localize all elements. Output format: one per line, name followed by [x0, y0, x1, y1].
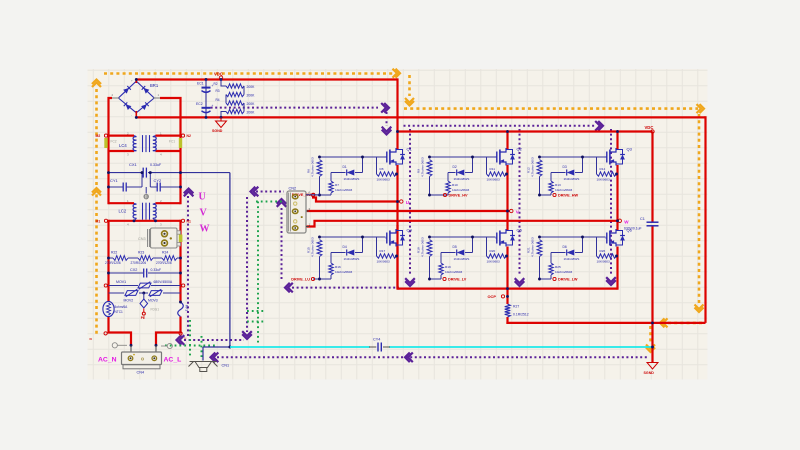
wire drive Q4 [313, 278, 331, 280]
purple arrow left CN2-top [251, 187, 256, 197]
svg-text:10ohm/0603: 10ohm/0603 [555, 270, 572, 274]
svg-text:V: V [200, 208, 208, 219]
svg-text:MOV3: MOV3 [148, 299, 158, 303]
svg-text:AC_L: AC_L [164, 357, 182, 364]
green route top horizontal near CN2 [256, 201, 284, 203]
orange route vertical at bridge output [408, 75, 411, 96]
diode D5 [441, 252, 456, 254]
svg-text:0.33uF: 0.33uF [151, 268, 162, 272]
orange route top horizontal [104, 72, 394, 75]
resistor R22 [113, 256, 128, 261]
wire divider joint right1 [243, 86, 245, 95]
junction cyan right node [651, 346, 654, 349]
junction CN4 pin2 [155, 344, 158, 347]
resistor R12 [537, 160, 542, 177]
orange route left vertical [95, 89, 98, 336]
svg-text:PE: PE [141, 316, 145, 320]
purple arrow down phase-W [606, 280, 616, 285]
svg-text:R13: R13 [555, 183, 561, 187]
capacitor CX2 [143, 269, 145, 278]
orange arrow up left mid [92, 188, 101, 193]
wire R15 to drive [319, 257, 321, 280]
capacitor CY4 [369, 338, 390, 352]
diode D6 [551, 252, 566, 254]
green route bottom horizontal y345 [165, 345, 216, 347]
purple route low-drive horizontal [292, 287, 399, 289]
svg-text:D1: D1 [343, 165, 347, 169]
junction CY left [107, 186, 110, 189]
svg-text:10K/0603: 10K/0603 [597, 260, 611, 264]
svg-text:CX1: CX1 [129, 162, 138, 167]
svg-text:EC2: EC2 [196, 102, 203, 106]
inductor LC2 [119, 199, 163, 227]
svg-text:DRIVE_LV: DRIVE_LV [448, 278, 467, 282]
purple route from divider horizontal [211, 107, 378, 109]
green route short horizontal y321 [247, 321, 266, 323]
purple route mid vertical x247 [246, 197, 248, 332]
wire AC left rail upper [109, 98, 113, 137]
resistor R17 [376, 237, 378, 256]
svg-text:R25: R25 [555, 265, 561, 269]
purple arrow left CN4 route [177, 335, 182, 345]
svg-text:R20: R20 [490, 249, 496, 253]
svg-text:FDG1: FDG1 [151, 308, 160, 312]
svg-text:1N4148WS: 1N4148WS [564, 177, 580, 181]
svg-text:NTC1: NTC1 [115, 310, 124, 314]
svg-text:D6: D6 [563, 245, 567, 249]
svg-text:LC2: LC2 [119, 209, 127, 214]
transistor Q3 [606, 147, 633, 166]
svg-text:10K/0603: 10K/0603 [377, 178, 391, 182]
wire EC chain vertical [205, 80, 207, 118]
svg-text:D5: D5 [453, 245, 457, 249]
svg-text:DRIVE_HW: DRIVE_HW [558, 194, 578, 198]
wire CY row [109, 186, 123, 188]
svg-text:SGND: SGND [212, 129, 223, 133]
svg-text:+: + [131, 79, 133, 83]
svg-text:N2: N2 [187, 134, 191, 138]
net tie MOV1 left [104, 284, 107, 287]
svg-text:R19: R19 [445, 265, 451, 269]
svg-text:R26: R26 [600, 249, 606, 253]
svg-text:200K: 200K [247, 111, 256, 115]
wire CN1 branch [203, 347, 230, 361]
svg-text:10ohm/0603: 10ohm/0603 [452, 188, 469, 192]
transistor Q1 [386, 147, 413, 166]
orange arrow left bottom-right [660, 318, 665, 327]
wire divider joint right2 [243, 103, 245, 112]
svg-text:Q5: Q5 [517, 228, 523, 233]
orange route upper-right horizontal [404, 107, 698, 110]
wire LC2 pin2 [156, 202, 181, 204]
svg-text:L: L [185, 336, 187, 340]
svg-text:4.7kohm 0603: 4.7kohm 0603 [531, 157, 535, 177]
net label W phase [618, 219, 621, 222]
wire CN2 to W phase [306, 221, 618, 227]
resistor R14 [596, 157, 598, 174]
purple route VDC-rail horizontal [404, 125, 596, 127]
svg-text:10ohm/0603: 10ohm/0603 [555, 188, 572, 192]
net label U phase [400, 200, 403, 203]
junction Q2 gate cell [428, 156, 431, 159]
bus phase U low segment [396, 247, 398, 290]
svg-text:Q1: Q1 [407, 147, 413, 152]
transistor Q6 [606, 228, 633, 247]
svg-text:R3: R3 [216, 89, 220, 93]
svg-text:R7: R7 [335, 183, 339, 187]
svg-text:U: U [199, 192, 206, 203]
wire drive Q3 [540, 194, 552, 196]
wire drive Q1 [313, 194, 331, 196]
diode D2 [448, 172, 456, 174]
svg-text:0.33uF: 0.33uF [150, 163, 162, 167]
purple route phase-W vertical [610, 129, 612, 275]
svg-text:270R/1206: 270R/1206 [156, 261, 172, 265]
wire LC4 pin3 [109, 150, 135, 152]
diode D3 [551, 172, 566, 174]
svg-text:M1: M1 [96, 219, 101, 223]
svg-text:M2: M2 [96, 134, 101, 138]
junction emitter rail V [506, 287, 509, 290]
svg-text:CY1: CY1 [110, 178, 119, 183]
purple arrow down phase-U [405, 281, 415, 286]
schematic sheet [88, 69, 708, 380]
earth clamp CN1 [189, 362, 218, 372]
resistor R4 [226, 101, 244, 105]
orange arrow down right [695, 308, 704, 313]
orange route right vertical [698, 114, 701, 304]
junction VDC rail at U [396, 130, 399, 133]
wire R22-R24 row [109, 257, 114, 259]
diode D4 [331, 252, 346, 254]
varistor MOV3 [149, 291, 162, 296]
purple arrow right at divider route [384, 103, 389, 113]
bus phase W vertical [616, 132, 618, 150]
junction VDC rail at V [506, 130, 509, 133]
svg-text:4.7kohm 0603: 4.7kohm 0603 [311, 157, 315, 177]
svg-text:200K: 200K [247, 94, 256, 98]
purple arrow down below divider route [382, 130, 392, 135]
wire right rail RF1 to CN4 [156, 317, 181, 346]
svg-text:Q4: Q4 [407, 228, 413, 233]
svg-text:R2: R2 [214, 82, 218, 86]
ferrite bead FC1 [179, 138, 182, 148]
power symbol SGND bottom [644, 363, 659, 376]
net tie L corner [104, 332, 107, 335]
resistor R15 [317, 240, 322, 257]
resistor R18 [427, 240, 432, 257]
svg-text:R27: R27 [513, 305, 519, 309]
wire LC4 pin4 [156, 150, 181, 152]
resistor R20 [486, 237, 488, 256]
svg-text:10K/0603: 10K/0603 [487, 178, 501, 182]
wire R9 to drive [429, 177, 431, 196]
svg-text:4.7kohm 0603: 4.7kohm 0603 [421, 237, 425, 257]
varistor MOV2 [125, 291, 138, 296]
junction CY right [179, 186, 182, 189]
purple route CN2-top horizontal [256, 191, 284, 193]
junction CY-CX taps [141, 171, 144, 174]
svg-text:CN2: CN2 [289, 187, 297, 191]
junction RF1 top [179, 301, 182, 304]
wire drive Q5 [430, 278, 442, 280]
svg-text:1N4148WS: 1N4148WS [344, 257, 360, 261]
junction EC1 bottom [205, 116, 208, 119]
connector CN4 [122, 345, 162, 369]
wire VDC bridge top rail [398, 130, 653, 132]
svg-text:D3: D3 [563, 165, 567, 169]
svg-text:SGND: SGND [644, 371, 655, 375]
wire gate row Q4 [320, 236, 386, 238]
wire drive Q6 [540, 278, 552, 280]
resistor R19 [439, 263, 443, 275]
resistor R24 [162, 256, 177, 261]
wire CX1 row to mid vertical [109, 172, 142, 174]
svg-text:1N4148WS: 1N4148WS [564, 257, 580, 261]
svg-text:1N4148WS: 1N4148WS [454, 257, 470, 261]
svg-text:D2: D2 [453, 165, 457, 169]
svg-text:5ohm/6A: 5ohm/6A [115, 305, 129, 309]
connector CN2 pins [293, 191, 312, 231]
purple arrow left low-drive route [285, 283, 290, 293]
junction R row [107, 257, 110, 260]
net tie N2 [181, 134, 184, 137]
svg-text:10ohm/0603: 10ohm/0603 [335, 270, 352, 274]
sheet grid [88, 69, 708, 380]
purple arrow down phase-V [515, 281, 525, 286]
wire VDC cap branch upper [651, 132, 653, 223]
svg-text:BR1: BR1 [150, 83, 159, 88]
svg-text:+: + [212, 104, 214, 108]
svg-text:R8: R8 [380, 167, 384, 171]
junction VDC rail at W [616, 130, 619, 133]
resistor R10 [446, 181, 450, 193]
svg-text:RF1: RF1 [185, 305, 189, 311]
svg-text:1N4148WS: 1N4148WS [344, 177, 360, 181]
wire gate row Q2 [430, 156, 496, 158]
svg-text:R4: R4 [216, 98, 220, 102]
junction bridge top [135, 78, 138, 81]
green route vertical x201 [201, 336, 203, 357]
svg-text:R24: R24 [162, 251, 168, 255]
wire right rail LC2 to RF1 [179, 220, 181, 302]
svg-text:R22: R22 [111, 251, 117, 255]
wire VDC top rail [136, 78, 397, 80]
purple route mid vertical x188 [187, 196, 189, 337]
svg-text:W: W [200, 224, 210, 235]
junction Q4 gate cell [318, 236, 321, 239]
resistor R6 [317, 160, 322, 177]
wire left rail LC2 to NTC [107, 220, 109, 302]
wire gate row Q6 [540, 236, 606, 238]
svg-text:DRIVE_LU: DRIVE_LU [291, 278, 310, 282]
svg-text:D4: D4 [343, 245, 347, 249]
capacitor CY1 [122, 183, 124, 192]
net label V phase [510, 209, 513, 212]
ferrite bead FC3 [179, 235, 183, 243]
svg-text:10K/0603: 10K/0603 [377, 260, 391, 264]
resistor R9 [427, 160, 432, 177]
junction Q3 gate cell [538, 156, 541, 159]
svg-text:200K: 200K [247, 85, 256, 89]
fuse RF1 [178, 302, 189, 317]
resistor R21 [537, 240, 542, 257]
wire R21 to drive [539, 257, 541, 280]
wire CX2 row [109, 272, 144, 274]
purple arrow down mid x247 [242, 334, 252, 339]
wire right rail LC4 to LC2 [179, 135, 181, 205]
capacitor EC1 [197, 82, 214, 93]
svg-text:10ohm/0603: 10ohm/0603 [335, 188, 352, 192]
wire CN2 to U phase [312, 198, 400, 202]
green route vertical x189 [189, 320, 191, 356]
svg-text:1N4148WS: 1N4148WS [454, 177, 470, 181]
resistor R25 [549, 263, 553, 275]
thermistor NTC1 [103, 301, 128, 316]
svg-text:4.7kohm 0603: 4.7kohm 0603 [311, 237, 315, 257]
resistor R11 [486, 157, 488, 174]
svg-text:C1: C1 [640, 217, 645, 221]
svg-text:10K/0603: 10K/0603 [597, 178, 611, 182]
capacitor C1 [624, 217, 659, 231]
wire right edge vertical [704, 116, 706, 323]
orange route stub above cyan node [649, 326, 652, 342]
orange arrow down at bridge output [405, 101, 414, 106]
orange route bottom-right horizontal [668, 322, 704, 325]
svg-text:CN3: CN3 [138, 237, 146, 241]
wire bottom return rail [506, 322, 705, 324]
wire drive Q2 [430, 194, 449, 196]
svg-text:MOV2: MOV2 [124, 299, 134, 303]
junction CX1 right rail [179, 171, 182, 174]
svg-text:R11: R11 [490, 167, 496, 171]
svg-text:CN1: CN1 [222, 364, 230, 368]
svg-text:R17: R17 [380, 249, 386, 253]
svg-text:CY4: CY4 [373, 338, 380, 342]
junction bridge bottom [135, 116, 138, 119]
wire CN2 drive HU [306, 194, 320, 196]
resistor R2 [226, 84, 244, 88]
wire gate row Q3 [540, 156, 606, 158]
purple route CN4 horizontal [184, 339, 244, 341]
svg-text:4.7kohm 0603: 4.7kohm 0603 [531, 237, 535, 257]
capacitor CX1 [142, 168, 144, 178]
wire MOV row [109, 292, 125, 294]
resistor R7 [329, 181, 333, 193]
svg-text:EC1: EC1 [197, 82, 204, 86]
junction VDC at divider [220, 78, 223, 81]
wire R6 to drive [319, 177, 321, 196]
wire CN2 to V phase [307, 210, 510, 212]
resistor R27 [505, 304, 511, 317]
junction CX2 [107, 272, 110, 275]
resistor R23 [138, 256, 153, 261]
wire divider top [221, 80, 226, 87]
wire cyan CY4 right [389, 346, 653, 348]
transistor Q2 [496, 147, 523, 166]
svg-text:MOV1: MOV1 [116, 280, 126, 284]
purple arrow left bottom route mid [405, 353, 410, 363]
wire LC2 bottom row M1-N1 [109, 220, 181, 222]
capacitor CY2 [156, 183, 158, 192]
junction divider bottom [220, 116, 223, 119]
wire mid long vertical to CN1 node [229, 173, 231, 347]
purple arrow left bottom route end [211, 353, 216, 363]
svg-text:OCP: OCP [488, 294, 497, 299]
net tie N corner [179, 332, 182, 335]
svg-text:W: W [624, 219, 629, 224]
wire MOV1 row [109, 285, 139, 287]
svg-text:LC4: LC4 [119, 143, 127, 148]
svg-text:DRIVE_LW: DRIVE_LW [558, 278, 578, 282]
svg-text:680V/4500A: 680V/4500A [154, 280, 173, 284]
varistor MOV1 [138, 283, 151, 288]
purple arrow up mid x188 [184, 189, 194, 194]
wire VDC cap branch lower to SGND [651, 226, 653, 363]
net label drive Q1 [311, 193, 314, 196]
no-connect marker left [112, 343, 127, 348]
junction CX1 left [107, 171, 110, 174]
capacitor EC2 [196, 102, 214, 113]
svg-text:R14: R14 [600, 167, 606, 171]
purple route phase-V vertical [519, 129, 521, 276]
bus phase U vertical [396, 165, 398, 289]
net tie MOV1 right [182, 284, 185, 287]
svg-text:270R/1206: 270R/1206 [105, 261, 121, 265]
resistor R5 [226, 109, 244, 113]
gas discharge tube FDG1 [140, 293, 159, 312]
diode D1 [331, 172, 346, 174]
purple stub vertical below divider route [386, 112, 388, 126]
wire VDC drop to bridge rail [396, 78, 398, 149]
green route vertical x258 [257, 202, 259, 346]
resistor R26 [596, 237, 598, 256]
svg-text:4.7kohm 0603: 4.7kohm 0603 [421, 157, 425, 177]
transistor Q4 [386, 228, 413, 247]
svg-text:FC2: FC2 [111, 140, 117, 144]
svg-text:CN4: CN4 [137, 371, 145, 375]
wire CY center branch [142, 174, 150, 187]
resistor R3 [226, 92, 244, 96]
svg-text:Q2: Q2 [517, 147, 523, 152]
resistor R8 [376, 157, 378, 174]
junction Q1 gate cell [318, 156, 321, 159]
junction Q5 gate cell [428, 236, 431, 239]
bridge rectifier BR1 [112, 79, 161, 118]
svg-text:200K: 200K [247, 102, 256, 106]
svg-text:270R/1206: 270R/1206 [131, 261, 147, 265]
earth symbol CY center [144, 194, 149, 199]
svg-text:FC1: FC1 [169, 140, 175, 144]
connector CN2 [287, 191, 306, 233]
svg-text:R10: R10 [452, 183, 458, 187]
transistor Q5 [496, 228, 523, 247]
junction VDC at EC1 [205, 78, 208, 81]
green route short horizontal y311 [247, 310, 266, 312]
orange arrow right upper-right [700, 104, 705, 113]
purple arrow right VDC-rail route [598, 121, 603, 131]
junction Q6 gate cell [538, 236, 541, 239]
wire R12 to drive [539, 177, 541, 196]
purple route CN2-left vertical [281, 208, 283, 281]
wire LC2 pin1 [109, 202, 135, 204]
svg-text:DRIVE_HV: DRIVE_HV [449, 194, 468, 198]
purple route bottom horizontal [217, 356, 648, 358]
wire gate row Q5 [430, 236, 496, 238]
wire gate row Q1 [320, 156, 386, 158]
wire emitter rail [398, 288, 618, 290]
svg-text:630V/0.1uF: 630V/0.1uF [624, 227, 642, 231]
